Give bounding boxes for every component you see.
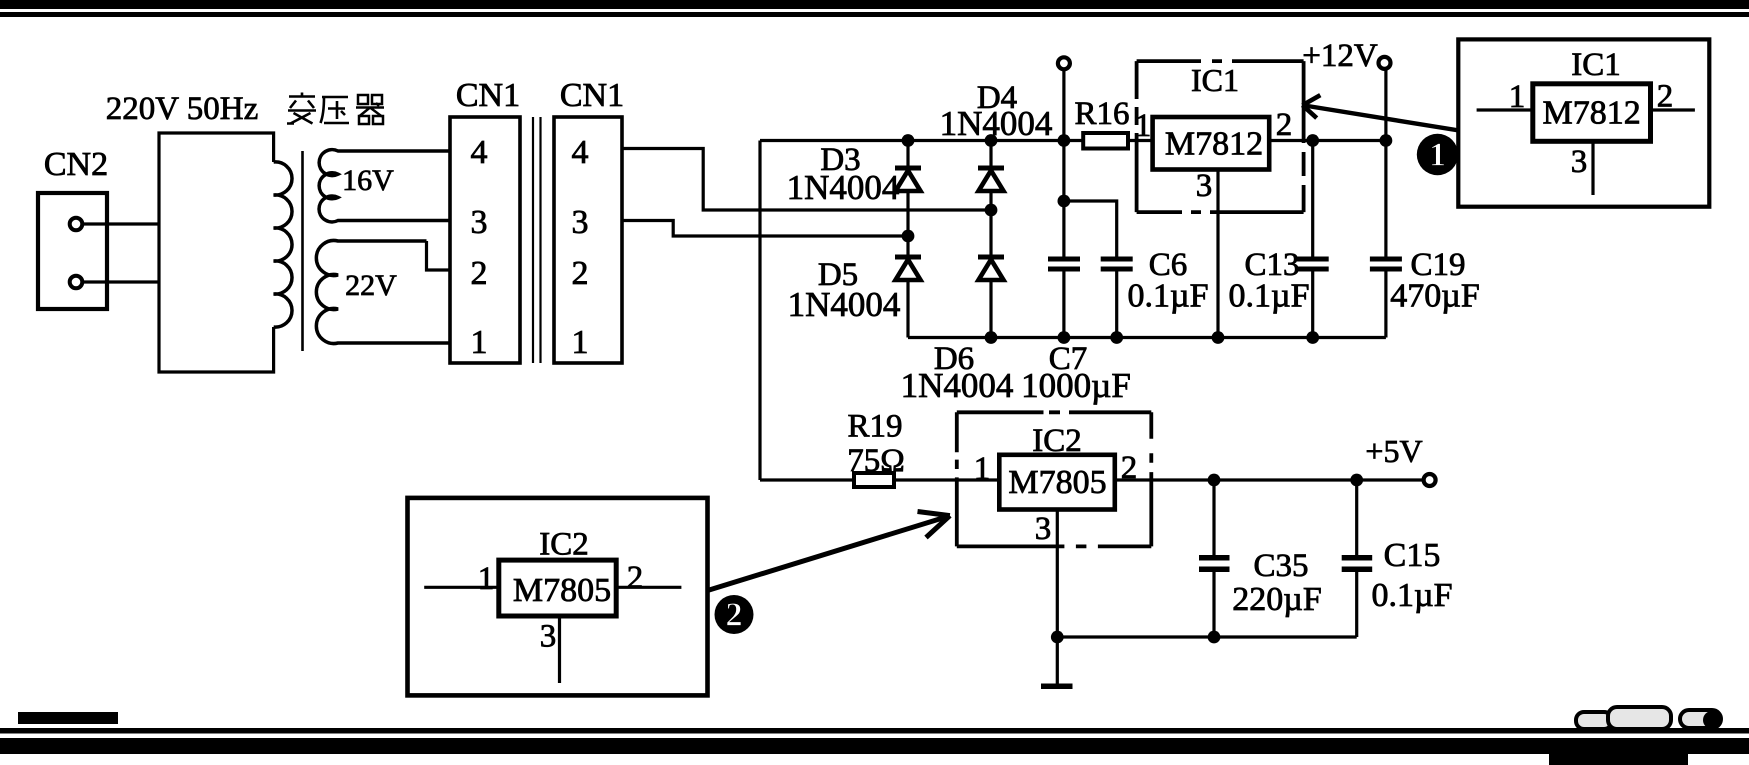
wire rectified top rail: [760, 139, 1083, 142]
transformer T1 22V secondary winding: [316, 240, 450, 343]
capacitor C13: [1297, 141, 1329, 338]
svg-text:+5V: +5V: [1365, 433, 1422, 469]
svg-text:1: 1: [1509, 79, 1526, 115]
svg-text:3: 3: [572, 204, 589, 241]
page top border bar 1: [0, 0, 1749, 9]
inset1 pin3 lead: [1591, 141, 1594, 195]
inset2 pin1 lead: [424, 586, 499, 589]
svg-text:1: 1: [572, 324, 589, 361]
wire 22V top lead step to CN1 pin2: [427, 241, 451, 270]
terminal +12V circle: [1379, 57, 1391, 69]
page bottom thick bar: [0, 738, 1749, 754]
svg-text:1: 1: [471, 324, 488, 361]
svg-text:0.1µF: 0.1µF: [1128, 278, 1209, 315]
wire feed to R19: [760, 478, 856, 481]
wire vertical feed to 5V branch: [758, 141, 761, 481]
svg-text:R16: R16: [1074, 96, 1129, 132]
svg-text:1000µF: 1000µF: [1021, 366, 1131, 405]
svg-text:75Ω: 75Ω: [847, 443, 905, 479]
node top rail at C7: [1058, 134, 1071, 147]
svg-text:3: 3: [540, 619, 557, 655]
wire CN2 terminal2 to transformer: [84, 280, 160, 283]
diode D6: [978, 255, 1004, 338]
svg-text:IC1: IC1: [1571, 47, 1621, 83]
scan artifact capsule middle: [1608, 707, 1671, 729]
node C6 branch junction: [1058, 195, 1071, 208]
node pin3 bottom rail junction: [1051, 631, 1064, 644]
connector CN1 right body: [554, 117, 622, 363]
node output rail at C19: [1380, 134, 1393, 147]
svg-text:M7805: M7805: [1008, 464, 1106, 501]
IC2 dashed outline box: [957, 412, 1152, 546]
node +5V rail at C35: [1208, 474, 1221, 487]
svg-text:R19: R19: [847, 409, 902, 445]
svg-text:4: 4: [572, 134, 589, 171]
transformer T1 primary winding arcs: [274, 162, 292, 327]
resistor R16: [1083, 133, 1128, 149]
node top rail at D4: [985, 134, 998, 147]
diode D5: [895, 236, 921, 338]
node D4-D6 junction: [985, 204, 998, 217]
connector CN2 body: [38, 193, 107, 309]
terminal circle unregulated output: [1058, 57, 1070, 69]
capacitor C15: [1342, 480, 1373, 637]
scan artifact capsule left: [1576, 712, 1612, 729]
ground symbol: [1041, 684, 1073, 690]
svg-text:IC2: IC2: [539, 527, 589, 563]
inset box IC2 pinout: [408, 498, 708, 696]
node bottom rail at D6: [985, 331, 998, 344]
wire IC1 pin2 output rail: [1269, 139, 1386, 142]
arrowhead 1: [1303, 95, 1321, 118]
svg-text:22V: 22V: [345, 269, 397, 302]
svg-text:CN1: CN1: [560, 77, 624, 114]
svg-text:470µF: 470µF: [1390, 278, 1480, 315]
wire branch to C6: [1064, 201, 1117, 257]
callout circled 2: [715, 595, 754, 634]
svg-text:220V 50Hz: 220V 50Hz: [106, 91, 258, 127]
node D3-D5 junction: [902, 230, 915, 243]
inset1 M7812 body: [1533, 84, 1651, 142]
wire CN2 terminal1 to transformer: [84, 222, 160, 225]
svg-text:1: 1: [478, 561, 495, 597]
svg-text:M7805: M7805: [513, 572, 611, 609]
svg-text:220µF: 220µF: [1232, 581, 1322, 618]
node ground rail at C35: [1208, 631, 1221, 644]
svg-text:CN1: CN1: [456, 77, 520, 114]
node +5V rail at C15: [1350, 474, 1363, 487]
page bottom thin rule: [0, 728, 1749, 734]
svg-text:2: 2: [627, 560, 644, 596]
wire 5V ground rail: [1057, 635, 1356, 638]
connector CN1 mating line left: [532, 117, 534, 363]
svg-text:3: 3: [1035, 511, 1052, 547]
node bottom rail at C6: [1110, 331, 1123, 344]
scan artifact capsule right: [1680, 710, 1721, 728]
inset2 pin3 lead: [558, 616, 561, 683]
diode D3: [895, 141, 921, 237]
capacitor C6: [1101, 257, 1133, 272]
connector CN2 terminal 2: [70, 276, 83, 289]
svg-text:3: 3: [1571, 144, 1588, 180]
diode D4: [978, 141, 1004, 255]
svg-text:4: 4: [471, 134, 488, 171]
inset1 pin2 lead: [1651, 108, 1695, 111]
resistor R19: [854, 473, 894, 487]
regulator IC2 M7805 body: [999, 455, 1115, 510]
arrow from inset1 to IC1: [1305, 106, 1460, 131]
wire IC2 pin3 down: [1056, 510, 1059, 685]
svg-text:1N4004: 1N4004: [901, 366, 1014, 405]
capacitor C7: [1048, 257, 1080, 272]
wire CN1 pin4 to bridge node: [622, 149, 991, 211]
svg-text:2: 2: [726, 597, 743, 634]
svg-text:1N4004: 1N4004: [788, 285, 901, 324]
svg-text:16V: 16V: [342, 164, 394, 197]
IC1 dashed outline box: [1137, 61, 1304, 212]
svg-text:2: 2: [572, 255, 589, 292]
page bottom left dash mark: [18, 712, 118, 724]
wire CN1 pin3 to bridge node: [622, 221, 908, 237]
svg-text:2: 2: [471, 255, 488, 292]
svg-text:1N4004: 1N4004: [940, 104, 1053, 143]
node bottom rail at C13: [1306, 331, 1319, 344]
svg-text:1: 1: [1135, 108, 1152, 144]
svg-text:2: 2: [1276, 107, 1293, 143]
capacitor C19: [1370, 70, 1402, 338]
wire R16 to IC1: [1128, 139, 1153, 142]
capacitor C35: [1199, 480, 1230, 637]
inset2 pin2 lead: [616, 586, 681, 589]
wire terminal to top rail: [1062, 70, 1065, 256]
terminal +5V circle: [1424, 474, 1436, 486]
transformer T1 primary body with winding: [159, 133, 274, 372]
svg-text:+12V: +12V: [1302, 38, 1378, 74]
transformer T1 core: [301, 151, 304, 351]
page top border bar 2: [0, 12, 1749, 17]
svg-text:1N4004: 1N4004: [787, 168, 900, 207]
wire IC2 pin2 output to +5V: [1115, 478, 1423, 481]
transformer T1 16V secondary winding: [319, 150, 450, 222]
inset box IC1 pinout: [1458, 39, 1709, 206]
callout circled 1: [1417, 134, 1458, 175]
node bottom rail at IC1 pin3: [1212, 331, 1225, 344]
svg-text:0.1µF: 0.1µF: [1372, 577, 1453, 614]
page bottom notch: [1549, 752, 1688, 765]
connector CN1 mating line right: [539, 117, 541, 363]
svg-text:3: 3: [471, 204, 488, 241]
connector CN2 terminal 1: [70, 218, 83, 231]
label transformer (Chinese ya): [321, 97, 350, 123]
arrow from inset2 to IC2: [708, 517, 947, 591]
svg-text:3: 3: [1196, 168, 1213, 204]
node output rail at C13: [1306, 134, 1319, 147]
wire R19 to IC2: [894, 478, 999, 481]
inset2 M7805 body: [499, 560, 616, 616]
inset1 pin1 lead: [1477, 108, 1533, 111]
svg-text:1: 1: [974, 451, 991, 487]
svg-text:C35: C35: [1253, 548, 1308, 584]
svg-text:C15: C15: [1384, 537, 1441, 574]
node bottom rail at C7: [1058, 331, 1071, 344]
svg-text:0.1µF: 0.1µF: [1229, 278, 1310, 315]
svg-text:M7812: M7812: [1165, 126, 1263, 163]
svg-text:1: 1: [1429, 137, 1446, 174]
arrowhead 2: [918, 512, 950, 538]
wire bottom rail: [908, 336, 1386, 339]
label transformer (Chinese qi): [356, 95, 384, 124]
svg-text:CN2: CN2: [44, 146, 108, 183]
svg-text:M7812: M7812: [1542, 95, 1640, 132]
connector CN1 left body: [450, 117, 520, 363]
label transformer (Chinese bian): [287, 93, 316, 124]
wire IC1 pin3 to bottom rail: [1216, 170, 1219, 338]
regulator IC1 M7812 body: [1153, 117, 1270, 170]
node top rail at D3: [902, 134, 915, 147]
scan artifact blob: [1703, 711, 1721, 729]
svg-text:2: 2: [1657, 79, 1674, 115]
svg-text:IC1: IC1: [1191, 62, 1239, 98]
